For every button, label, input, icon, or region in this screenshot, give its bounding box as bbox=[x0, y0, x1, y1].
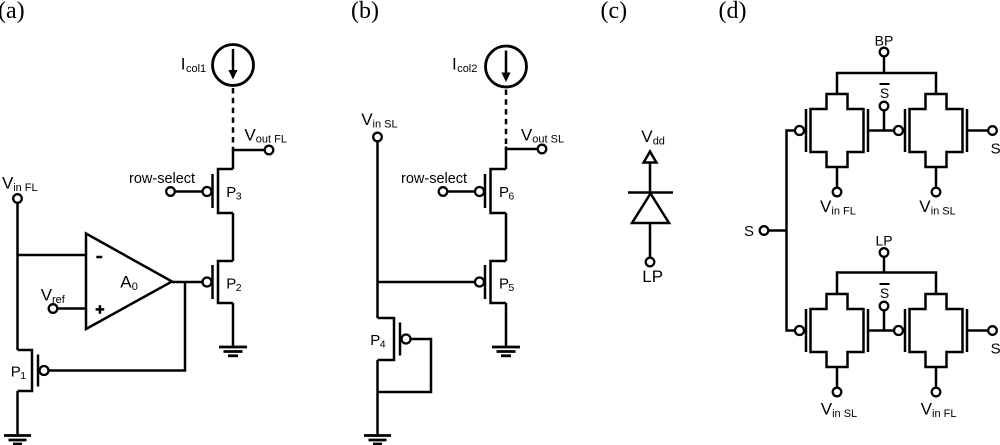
svg-text:I: I bbox=[452, 54, 457, 73]
current source I_col1 bbox=[181, 45, 254, 86]
svg-text:in FL: in FL bbox=[831, 205, 855, 217]
svg-text:BP: BP bbox=[875, 32, 894, 48]
node V_out SL bbox=[506, 125, 564, 153]
wire T3 to T4 gates bbox=[868, 329, 894, 332]
op-amp output wire bbox=[172, 281, 202, 284]
svg-text:(a): (a) bbox=[0, 0, 25, 24]
current source I_col2 bbox=[452, 46, 527, 87]
svg-text:V: V bbox=[521, 125, 533, 144]
svg-text:S: S bbox=[880, 285, 889, 301]
svg-text:A: A bbox=[120, 273, 132, 292]
svg-text:LP: LP bbox=[875, 232, 892, 248]
svg-text:in SL: in SL bbox=[832, 408, 857, 420]
transmission gate T1 (top left) bbox=[795, 94, 868, 167]
svg-text:V: V bbox=[919, 197, 931, 216]
svg-text:S: S bbox=[744, 223, 754, 240]
dashed wire from I_col2 bbox=[505, 90, 508, 148]
node LP bbox=[642, 258, 663, 286]
wire S bus bbox=[787, 131, 795, 331]
wire P2 to ground bbox=[232, 303, 235, 346]
ground (b) left bbox=[364, 436, 391, 445]
svg-text:out FL: out FL bbox=[256, 134, 287, 146]
transistor P6 bbox=[475, 149, 514, 213]
node Sbar (top) bbox=[880, 84, 890, 131]
svg-text:V: V bbox=[361, 110, 373, 129]
svg-text:V: V bbox=[41, 286, 53, 305]
ground (b) right bbox=[492, 347, 520, 356]
transistor P3 bbox=[203, 150, 242, 213]
node LP (d) bbox=[875, 232, 892, 272]
node V_ref bbox=[41, 286, 86, 313]
wire P1 to ground bbox=[16, 391, 19, 434]
row-select terminal (b) bbox=[401, 171, 475, 196]
svg-text:in FL: in FL bbox=[932, 408, 956, 420]
svg-text:in SL: in SL bbox=[373, 119, 398, 131]
svg-text:dd: dd bbox=[653, 135, 665, 147]
node V_in FL (top) bbox=[820, 167, 856, 217]
svg-text:V: V bbox=[641, 127, 653, 146]
svg-text:col1: col1 bbox=[186, 63, 206, 75]
svg-text:S: S bbox=[991, 341, 1000, 358]
svg-text:row-select: row-select bbox=[401, 171, 467, 187]
transistor P1 bbox=[11, 350, 49, 391]
svg-text:V: V bbox=[921, 400, 933, 419]
wire P5 to ground bbox=[505, 303, 508, 346]
transmission gate T3 (bottom left) bbox=[795, 294, 868, 367]
wire to inverting input bbox=[18, 254, 87, 257]
transistor P2 bbox=[203, 261, 242, 303]
ground (a) left bbox=[4, 436, 31, 445]
wire top rail bbox=[837, 73, 936, 94]
wire to P5 gate bbox=[378, 281, 475, 284]
svg-text:V: V bbox=[821, 400, 833, 419]
svg-text:col2: col2 bbox=[457, 63, 477, 75]
node Vdd bbox=[641, 127, 665, 193]
node S (left) bbox=[744, 223, 787, 240]
P4 gate to drain wire bbox=[378, 339, 432, 392]
svg-text:in FL: in FL bbox=[13, 182, 37, 194]
ground (a) right bbox=[219, 347, 247, 356]
svg-text:4: 4 bbox=[380, 339, 386, 351]
svg-text:V: V bbox=[820, 197, 832, 216]
svg-text:5: 5 bbox=[508, 282, 514, 294]
svg-text:in SL: in SL bbox=[931, 205, 956, 217]
svg-text:2: 2 bbox=[236, 282, 242, 294]
transmission gate T2 (top right) bbox=[894, 94, 967, 167]
svg-text:(b): (b) bbox=[351, 0, 379, 24]
feedback wire to P1 gate bbox=[49, 282, 185, 371]
transistor P5 bbox=[475, 261, 514, 303]
row-select terminal (a) bbox=[129, 171, 202, 196]
node V_in FL bbox=[2, 173, 38, 350]
svg-text:row-select: row-select bbox=[129, 171, 195, 187]
node V_out FL bbox=[233, 125, 287, 154]
node V_in SL (bottom) bbox=[821, 367, 857, 420]
node S (top right) bbox=[967, 126, 1000, 157]
wire bottom rail bbox=[837, 273, 936, 295]
svg-text:V: V bbox=[244, 125, 256, 144]
svg-text:S: S bbox=[991, 141, 1000, 158]
node V_in SL (top) bbox=[919, 167, 955, 217]
svg-text:I: I bbox=[181, 54, 186, 73]
wire P4 to ground bbox=[376, 360, 379, 434]
wire T1 to T2 gates bbox=[868, 129, 894, 132]
wire P3 to P2 bbox=[232, 213, 235, 261]
node BP bbox=[875, 32, 894, 73]
svg-text:(c): (c) bbox=[601, 0, 628, 24]
svg-text:0: 0 bbox=[132, 281, 138, 293]
wire P6 to P5 bbox=[505, 213, 508, 261]
node V_in SL bbox=[361, 110, 397, 318]
svg-text:3: 3 bbox=[236, 191, 242, 203]
node S (bottom right) bbox=[967, 326, 1000, 357]
transmission gate T4 (bottom right) bbox=[894, 294, 967, 367]
svg-text:1: 1 bbox=[20, 370, 26, 382]
transistor P4 bbox=[370, 318, 410, 360]
svg-text:6: 6 bbox=[508, 191, 514, 203]
svg-text:V: V bbox=[2, 173, 14, 192]
op-amp A0 bbox=[86, 234, 172, 330]
svg-text:LP: LP bbox=[642, 267, 663, 286]
node Sbar (bottom) bbox=[880, 284, 890, 331]
svg-text:(d): (d) bbox=[719, 0, 747, 24]
svg-text:S: S bbox=[880, 85, 889, 101]
diode D1 bbox=[628, 193, 673, 258]
node V_in FL (bottom) bbox=[921, 367, 957, 420]
svg-text:out SL: out SL bbox=[532, 134, 564, 146]
dashed wire from I_col1 bbox=[232, 88, 235, 148]
